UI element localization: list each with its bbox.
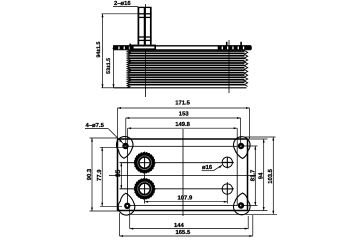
svg-text:94±1.5: 94±1.5: [96, 42, 102, 58]
svg-text:90.3: 90.3: [86, 168, 93, 180]
svg-text:2–ø16: 2–ø16: [114, 0, 131, 7]
svg-text:165.5: 165.5: [176, 229, 191, 236]
svg-text:35: 35: [115, 169, 122, 177]
svg-text:53±1.5: 53±1.5: [106, 58, 112, 74]
svg-text:4–ø7.5: 4–ø7.5: [86, 122, 105, 129]
svg-text:94: 94: [258, 172, 265, 179]
svg-text:144: 144: [174, 222, 185, 229]
svg-text:ø16: ø16: [202, 164, 213, 171]
svg-text:77.9: 77.9: [96, 169, 103, 181]
svg-text:153: 153: [179, 110, 190, 117]
svg-text:107.9: 107.9: [178, 194, 193, 201]
svg-text:103.5: 103.5: [267, 168, 274, 183]
svg-text:171.5: 171.5: [175, 99, 190, 106]
svg-text:149.8: 149.8: [175, 121, 190, 128]
svg-text:81.7: 81.7: [250, 169, 257, 181]
